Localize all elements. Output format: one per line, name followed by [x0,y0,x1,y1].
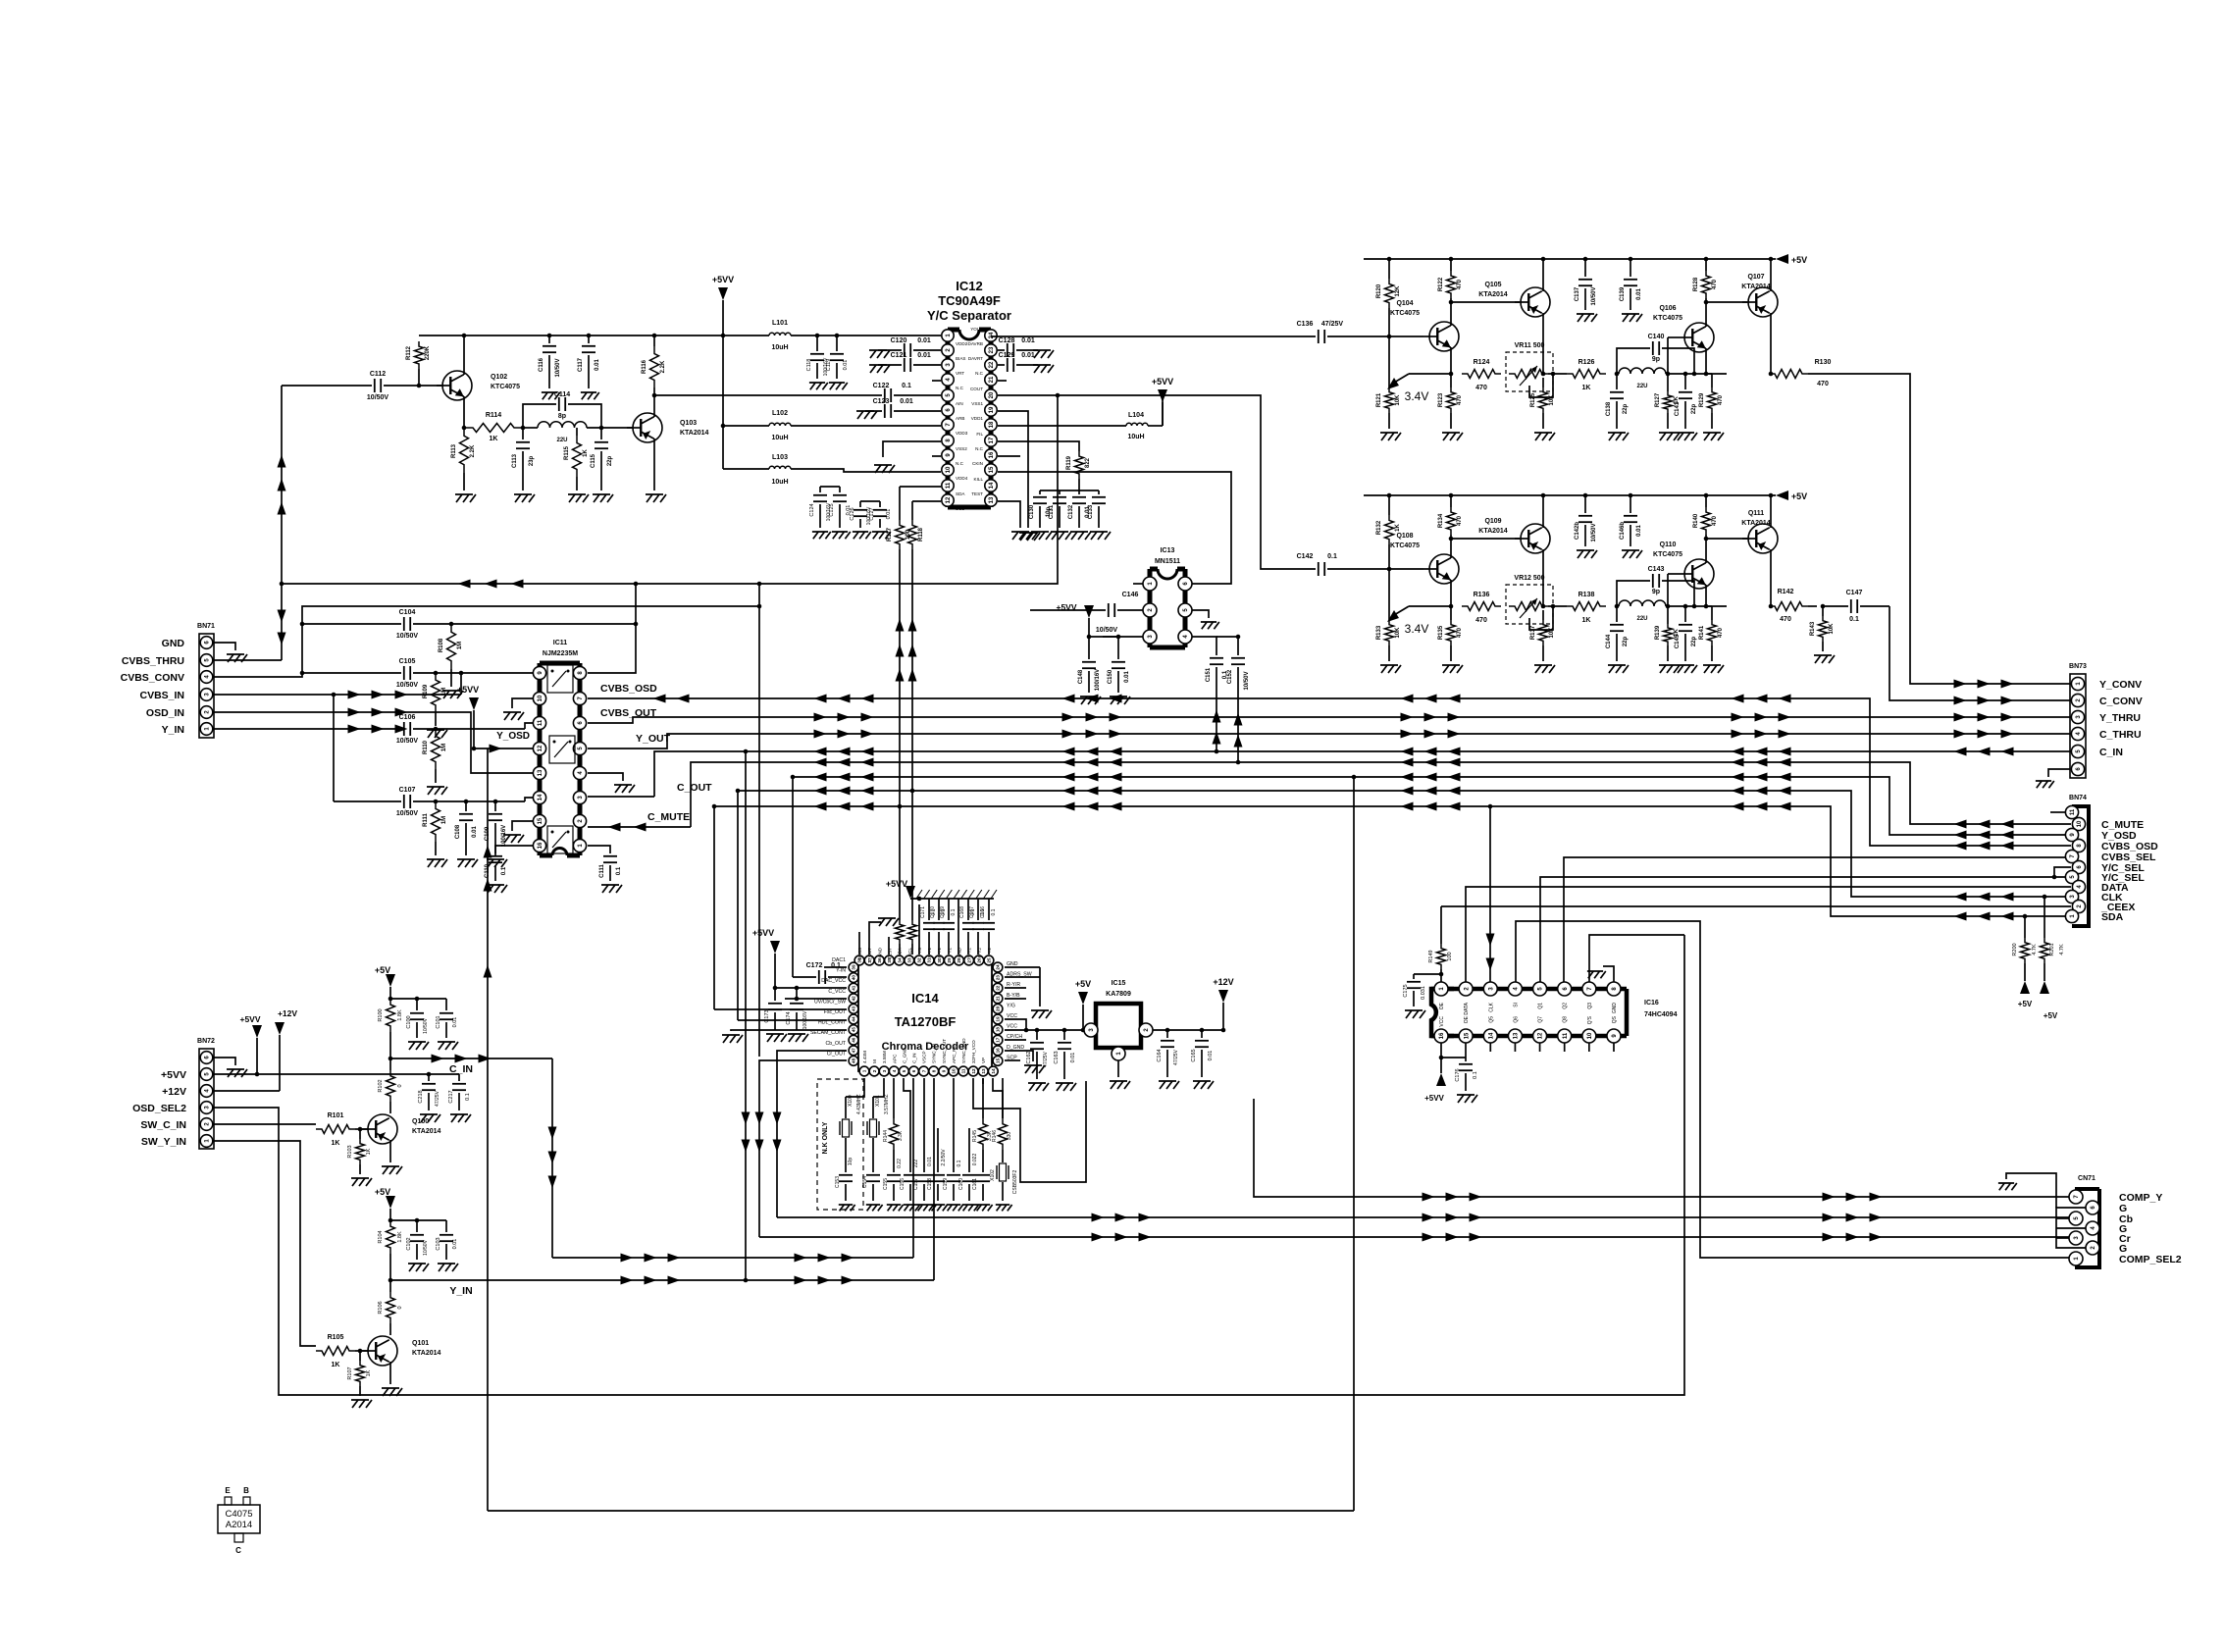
pot VR12 500 blk2 [1506,585,1553,624]
resistor R122 blk1 [1450,259,1452,271]
wire Q109 collector blk2 [1542,549,1544,606]
wire Q104 to Q105 base blk1 [1451,301,1520,303]
wire BN71 pin5 CVBS_THRU [214,659,282,661]
arrow cluster bus x860 [814,695,827,703]
svg-text:R127: R127 [1655,392,1661,407]
gnd C102 Q101 [408,1264,429,1271]
wire Q103 collector gnd [653,439,655,490]
gnd R137 blk2 [1534,665,1555,673]
gnd C123 [856,411,877,419]
svg-text:CKIN: CKIN [972,461,983,466]
gnd IC15 [1110,1081,1130,1089]
resistor R124 blk1 [1462,370,1501,379]
wire SW_C_IN [214,1123,316,1125]
capacitor C120 0.01 [878,349,902,351]
wire IC11 pin15 gnd [512,821,533,831]
wire Y_OSD bottom run [488,1510,1354,1512]
svg-text:BN73: BN73 [2069,663,2087,670]
svg-text:22p: 22p [1691,636,1697,646]
wire Y_OSD riser x1380 [1353,777,1355,1511]
svg-text:2.2K: 2.2K [470,444,476,457]
capacitor C123 0.01 [865,410,882,412]
svg-text:VSS2: VSS2 [956,446,967,451]
capacitor C161 2.2/50V [982,1150,984,1172]
svg-text:C142: C142 [1297,553,1314,560]
capacitor C122 0.1 [884,388,886,402]
wire Q107 collector blk1 [1770,313,1772,374]
svg-text:R118: R118 [918,527,924,542]
wire CVBS_SEL riser and row [1564,857,2071,982]
capacitor C115 22p [600,428,602,439]
svg-text:C_IN: C_IN [2099,747,2123,758]
svg-text:R141: R141 [1699,625,1705,640]
resistor R148 100 [908,920,917,944]
arrow Cb riser [773,1112,782,1125]
gnd C165 [1193,1081,1214,1089]
svg-text:C105: C105 [399,658,416,665]
gnd R129 blk1 [1703,433,1724,440]
wire Y_OSD riser x497 [487,749,489,1511]
capacitor C153 10p [845,1138,847,1172]
wire IC11 pin10 gnd [512,698,533,708]
svg-text:0: 0 [397,1306,403,1309]
capacitor C126 100/16V [859,501,861,507]
svg-text:0.1: 0.1 [616,866,622,875]
capacitor C138 22p blk1 [1616,374,1618,389]
gnd C148 [1080,697,1101,704]
svg-text:13: 13 [989,496,995,503]
gnd C141 blk1 [1677,433,1697,440]
svg-text:0.01: 0.01 [927,1157,933,1166]
svg-text:17: 17 [989,437,995,443]
svg-text:Q6: Q6 [1513,1016,1519,1023]
svg-text:0.01: 0.01 [917,337,931,344]
wire riser row8 to IC14 pin43 [713,806,715,1009]
svg-text:Cb_OUT: Cb_OUT [826,1041,847,1047]
capacitor C110 0.1 [489,855,502,857]
svg-text:C115: C115 [591,453,596,468]
svg-text:0.1: 0.1 [1849,616,1859,623]
svg-text:21: 21 [996,996,1001,1002]
gnd C218 [420,1114,440,1122]
svg-text:C136: C136 [1297,321,1314,328]
svg-text:C137: C137 [1575,286,1580,301]
svg-text:R107: R107 [347,1367,353,1379]
svg-text:GND: GND [1007,961,1018,967]
svg-text:C116: C116 [539,357,544,372]
gnd R109 [427,730,447,738]
svg-text:47/25V: 47/25V [1173,1049,1179,1065]
svg-text:10K: 10K [1395,627,1401,639]
svg-text:R109: R109 [423,684,429,698]
gnd Q101 collector [382,1388,402,1396]
svg-text:TC90A49F: TC90A49F [938,293,1001,308]
svg-text:R142: R142 [1778,589,1794,595]
svg-text:Q2: Q2 [1563,1003,1569,1009]
capacitor C163 0.01 [1063,1030,1065,1040]
svg-text:74HC4094: 74HC4094 [1644,1011,1678,1018]
wire bus Y_OSD row [793,777,2071,835]
resistor R140 470 blk2 [1705,495,1707,507]
svg-text:+5V: +5V [2044,1011,2058,1020]
wire SCL vertical to IC14 pin33 [911,549,913,920]
capacitor C174 100/16V [796,988,798,1001]
inductor L102 10uH [769,423,791,426]
svg-text:C_MUTE: C_MUTE [647,811,690,823]
wire IC16 pin7 OSD_SEL2 [1589,935,1684,982]
capacitor C154 10p [872,1138,874,1172]
wire BN73 pin6 gnd [2048,769,2070,777]
resistor R129 470 blk1 [1708,387,1717,413]
capacitor C162 47/25V [1036,1030,1038,1040]
wire C217 top [429,1073,459,1075]
svg-text:10uH: 10uH [771,479,788,486]
wire riser Y-IN C172 [792,777,794,977]
svg-text:+5VV: +5VV [161,1069,186,1081]
gnd C153 [839,1205,855,1211]
capacitor C144 22p blk2 [1616,606,1618,622]
arrow Cr [1092,1233,1105,1242]
svg-text:C130: C130 [1029,504,1035,519]
svg-text:10/50V: 10/50V [396,738,419,745]
svg-text:C4075: C4075 [226,1509,253,1520]
arrow SCL vertical [908,619,917,632]
gnd IC11 pin10 [503,712,524,720]
svg-text:C172: C172 [806,962,823,969]
svg-text:23p: 23p [529,455,535,466]
resistor R117 100 [896,520,905,549]
gnd C156 [904,1205,920,1211]
capacitor C173 0.01 [774,988,776,1001]
wire pin8 VSS2 to gnd [883,441,941,457]
gnd R141 blk2 [1703,665,1724,673]
svg-text:+5VV: +5VV [712,275,734,284]
svg-text:2: 2 [872,1069,877,1072]
svg-text:Q103: Q103 [680,420,697,427]
capacitor C124 100/16V [819,487,821,492]
gnd C121 [869,365,890,373]
svg-text:R132: R132 [1376,520,1382,535]
svg-text:BN74: BN74 [2069,795,2087,801]
svg-text:470: 470 [1712,515,1718,526]
svg-text:13: 13 [981,1068,986,1074]
svg-text:C_GND: C_GND [902,1047,906,1063]
arrow Y_IN bottom [621,1276,634,1285]
svg-text:R136: R136 [1474,592,1490,598]
capacitor C166 0.1 [988,899,990,920]
capacitor C136 47/25V input [991,336,1316,337]
svg-text:470: 470 [1817,381,1829,387]
svg-text:15: 15 [989,466,995,473]
svg-text:R144: R144 [883,1130,889,1142]
wire pot to node blk1 [1548,373,1567,375]
svg-text:R111: R111 [423,812,429,826]
svg-text:12: 12 [971,1068,976,1074]
svg-text:TEST: TEST [971,491,983,496]
wire pin1 riser [846,1078,864,1097]
resistor R133 blk2 [1388,569,1390,620]
svg-text:Q111: Q111 [1748,510,1764,517]
wire C_IN riser pin6 [912,1078,914,1258]
gnd C113 [514,494,535,502]
svg-text:4.43MHZ: 4.43MHZ [856,1094,862,1114]
capacitor C101 0.01 Q100 [445,999,447,1010]
svg-text:Y_THRU: Y_THRU [2099,712,2141,724]
resistor R142 470 output blk2 [1769,602,1808,611]
wire Q102 collector to rail [463,336,465,375]
wire IC15 input [1083,1029,1084,1031]
svg-text:19: 19 [996,1016,1001,1022]
gnd C217 [450,1114,471,1122]
IC15 pin3 [1084,1023,1098,1037]
wire CN71 gnd stub [2006,1173,2056,1208]
svg-text:R145: R145 [972,1130,978,1142]
svg-text:10/50V: 10/50V [367,394,389,401]
wire pin9 stub [932,455,941,457]
svg-text:10/50V: 10/50V [555,358,561,377]
IC16 top pins [1434,982,1448,996]
svg-text:SYNC_IN: SYNC_IN [932,1044,937,1063]
svg-text:0.01: 0.01 [900,398,913,405]
gnd R139 blk2 [1659,665,1680,673]
resistor R132 blk2 [1388,495,1390,515]
wire SCL pin12 [912,500,941,502]
svg-text:Cr_OUT: Cr_OUT [827,1051,847,1057]
svg-text:22: 22 [989,361,995,368]
switch S1 in IC11 [547,665,573,693]
svg-text:43: 43 [852,1006,856,1011]
svg-text:16: 16 [538,842,543,849]
svg-text:+5VV: +5VV [886,879,907,889]
svg-text:Q1: Q1 [1538,1003,1544,1009]
svg-text:+5V: +5V [375,965,390,975]
resistor R101 1K Q100 [316,1125,355,1134]
svg-text:0.22: 0.22 [897,1159,903,1168]
svg-text:APC: APC [892,1054,897,1063]
capacitor C140 bridge blk1 [1617,348,1650,374]
svg-text:SECAM_CONT: SECAM_CONT [810,1030,847,1036]
3.4V arrow blk1 [1409,373,1451,375]
svg-text:CVBS_OSD: CVBS_OSD [600,683,657,695]
svg-text:22U: 22U [1636,616,1647,622]
resistor R130 470 output blk1 [1769,370,1808,379]
svg-text:SW_C_IN: SW_C_IN [140,1119,186,1131]
svg-text:0.031: 0.031 [1421,986,1426,1000]
crystal X101 3.57MHZ [872,1097,874,1118]
wire YC_SEL riser and row [1540,867,2071,982]
+5VV arrow K11 [469,697,479,710]
svg-text:C162: C162 [1026,1051,1032,1063]
svg-text:1.8K: 1.8K [397,1231,403,1243]
inductor L106 22U blk2 [1619,600,1666,606]
wire CLK riser [1489,806,1491,982]
capacitor C111 0.1 [603,855,617,857]
resistor R104 1.8K Q101 [387,1220,395,1254]
arrow C151 riser [1213,710,1221,723]
svg-text:C152: C152 [1227,669,1233,684]
resistor R128 470 blk1 [1705,259,1707,271]
svg-text:VDD1: VDD1 [971,416,984,421]
wire pin35 stub [888,937,890,955]
svg-text:VR11 500: VR11 500 [1515,342,1545,349]
svg-text:BIAS: BIAS [956,356,965,361]
gnd C146b blk2 [1622,550,1642,558]
+5V arrow Q101 [386,1196,395,1209]
svg-text:UV/CbCr_SW: UV/CbCr_SW [814,999,846,1005]
svg-text:1K: 1K [583,448,589,456]
svg-text:47: 47 [852,1048,856,1054]
svg-text:C133: C133 [1088,504,1094,519]
svg-text:220K: 220K [425,345,431,360]
IC14 TA1270BF Chroma Decoder [858,960,992,1071]
wire CVBS_CONV long line [213,606,759,677]
wire Q104 base blk1 [1389,336,1423,337]
wire Q100 collector gnd Q100 [389,1140,391,1162]
svg-text:C157: C157 [913,1178,919,1190]
wire pin32 riser [918,904,920,955]
wire +5VV to DAC_VCC pin41 [774,954,776,988]
gnd C120 [869,350,890,358]
svg-text:C169: C169 [940,906,946,918]
arrow CVBS_OSD near K11 [653,695,666,703]
svg-text:SCL: SCL [907,948,912,956]
svg-text:CVBS_CONV: CVBS_CONV [121,672,184,684]
svg-text:45: 45 [852,1027,856,1033]
svg-text:Q3: Q3 [1587,1003,1593,1009]
resistor R102 0 Q100 [388,1057,393,1061]
svg-text:12: 12 [1538,1032,1544,1039]
capacitor C139 0.01 blk1 [1630,259,1631,277]
capacitor C129 0.01 [998,364,1005,366]
IC15 pin2 [1139,1023,1153,1037]
svg-text:+12V: +12V [1213,977,1233,987]
svg-text:222: 222 [913,1160,919,1168]
svg-text:10/50V: 10/50V [1591,523,1597,542]
resistor R100 1.8K Q100 [387,999,395,1032]
wire Q106 collector blk1 [1705,302,1707,327]
svg-text:QS: QS [1612,1015,1618,1023]
svg-text:10K: 10K [1549,394,1555,406]
svg-text:19: 19 [989,406,995,413]
arrow C_IN bottom [621,1254,634,1263]
wire +5VV to Y_OSD node [473,710,475,749]
wire COMP_SEL2 from IC16 pin4 [1516,921,2071,1258]
arrow C152 riser [1234,713,1243,726]
svg-text:R139: R139 [1655,625,1661,640]
svg-text:B-Y/B: B-Y/B [1007,993,1020,999]
svg-text:46: 46 [852,1037,856,1043]
gnd R110 [427,787,447,795]
capacitor C164 47/25V [1166,1030,1168,1038]
svg-text:Q104: Q104 [1396,300,1413,307]
svg-text:R102: R102 [378,1079,384,1092]
svg-text:23: 23 [996,975,1001,981]
svg-text:KTC4075: KTC4075 [1653,551,1682,558]
svg-text:C155: C155 [883,1178,889,1190]
svg-text:C104: C104 [399,609,416,616]
wire C175 tap [1414,973,1441,975]
wire +5V rail blk2 [1364,494,1776,496]
svg-text:Q101: Q101 [412,1340,429,1347]
svg-text:R120: R120 [1376,284,1382,298]
svg-text:KTC4075: KTC4075 [491,384,520,390]
svg-text:X100: X100 [848,1095,854,1107]
svg-text:330: 330 [1007,1132,1012,1141]
gnd C100 Q100 [408,1042,429,1050]
svg-text:SCL: SCL [956,506,964,511]
svg-text:R106: R106 [378,1301,384,1314]
wire Q103 emitter up [653,387,655,417]
wire C104 row [302,623,401,625]
svg-text:13: 13 [538,769,543,776]
wire +5V to rail [1082,1005,1084,1030]
svg-text:0.1: 0.1 [991,908,997,915]
wire Y_IN bottom row [412,1279,934,1281]
capacitor C131 0.033 [1059,490,1061,494]
svg-text:470: 470 [1718,394,1724,405]
svg-text:0.01: 0.01 [595,359,600,371]
svg-text:R138: R138 [1578,592,1595,598]
svg-text:1K: 1K [366,1369,372,1376]
svg-text:470: 470 [1475,385,1487,391]
svg-text:VCC: VCC [1007,1024,1017,1030]
capacitor C132 0.01 [1078,490,1080,494]
wire pin14 stub [993,1078,1003,1118]
capacitor C160 0.022 [968,1128,970,1172]
resistor R109 1M [432,673,440,712]
svg-text:C112: C112 [370,371,386,378]
wire to Q110 base blk2 [1694,605,1727,607]
wire pin3 riser [873,1078,884,1097]
svg-text:DAVRT: DAVRT [968,356,983,361]
resistor R141 470 blk2 [1708,620,1717,645]
svg-text:Y_OUT: Y_OUT [636,733,671,745]
svg-text:BN72: BN72 [197,1038,215,1045]
svg-text:5: 5 [902,1069,906,1072]
resistor R121 blk1 [1388,336,1390,387]
svg-text:R103: R103 [347,1145,353,1158]
+12V arrow BN72 [275,1022,285,1035]
wire bus CVBS_OUT row [588,717,2071,723]
svg-text:24: 24 [989,332,995,338]
svg-text:R112: R112 [406,345,412,360]
svg-text:C119: C119 [826,359,832,372]
svg-text:+12V: +12V [162,1086,186,1098]
svg-text:10: 10 [946,466,952,473]
resistor R201 4.7K [2044,897,2045,938]
svg-text:22p: 22p [607,455,613,466]
svg-text:13: 13 [1514,1032,1520,1039]
wire +5VV rail over IC14 [910,898,994,900]
gnd BN73 [2036,781,2054,788]
capacitor C142 0.1 input [1295,568,1316,570]
inductor L100 22U [538,422,587,428]
svg-text:12K: 12K [1395,285,1401,297]
svg-text:C100: C100 [406,1015,412,1028]
arrow CLK riser [1486,934,1495,947]
gnd C162 [1028,1083,1049,1091]
svg-text:KTC4075: KTC4075 [1390,310,1420,317]
wire caps to pins [820,486,840,488]
gnd C161 [976,1205,993,1211]
svg-text:16: 16 [996,1048,1001,1054]
gnd C129 [1033,365,1054,373]
wire pin22/21 stubs [1005,987,1026,989]
svg-text:KILL: KILL [974,477,984,482]
svg-text:C142b: C142b [1575,522,1580,540]
svg-text:0.01: 0.01 [452,1239,458,1250]
resistor R114 1K [464,424,523,433]
